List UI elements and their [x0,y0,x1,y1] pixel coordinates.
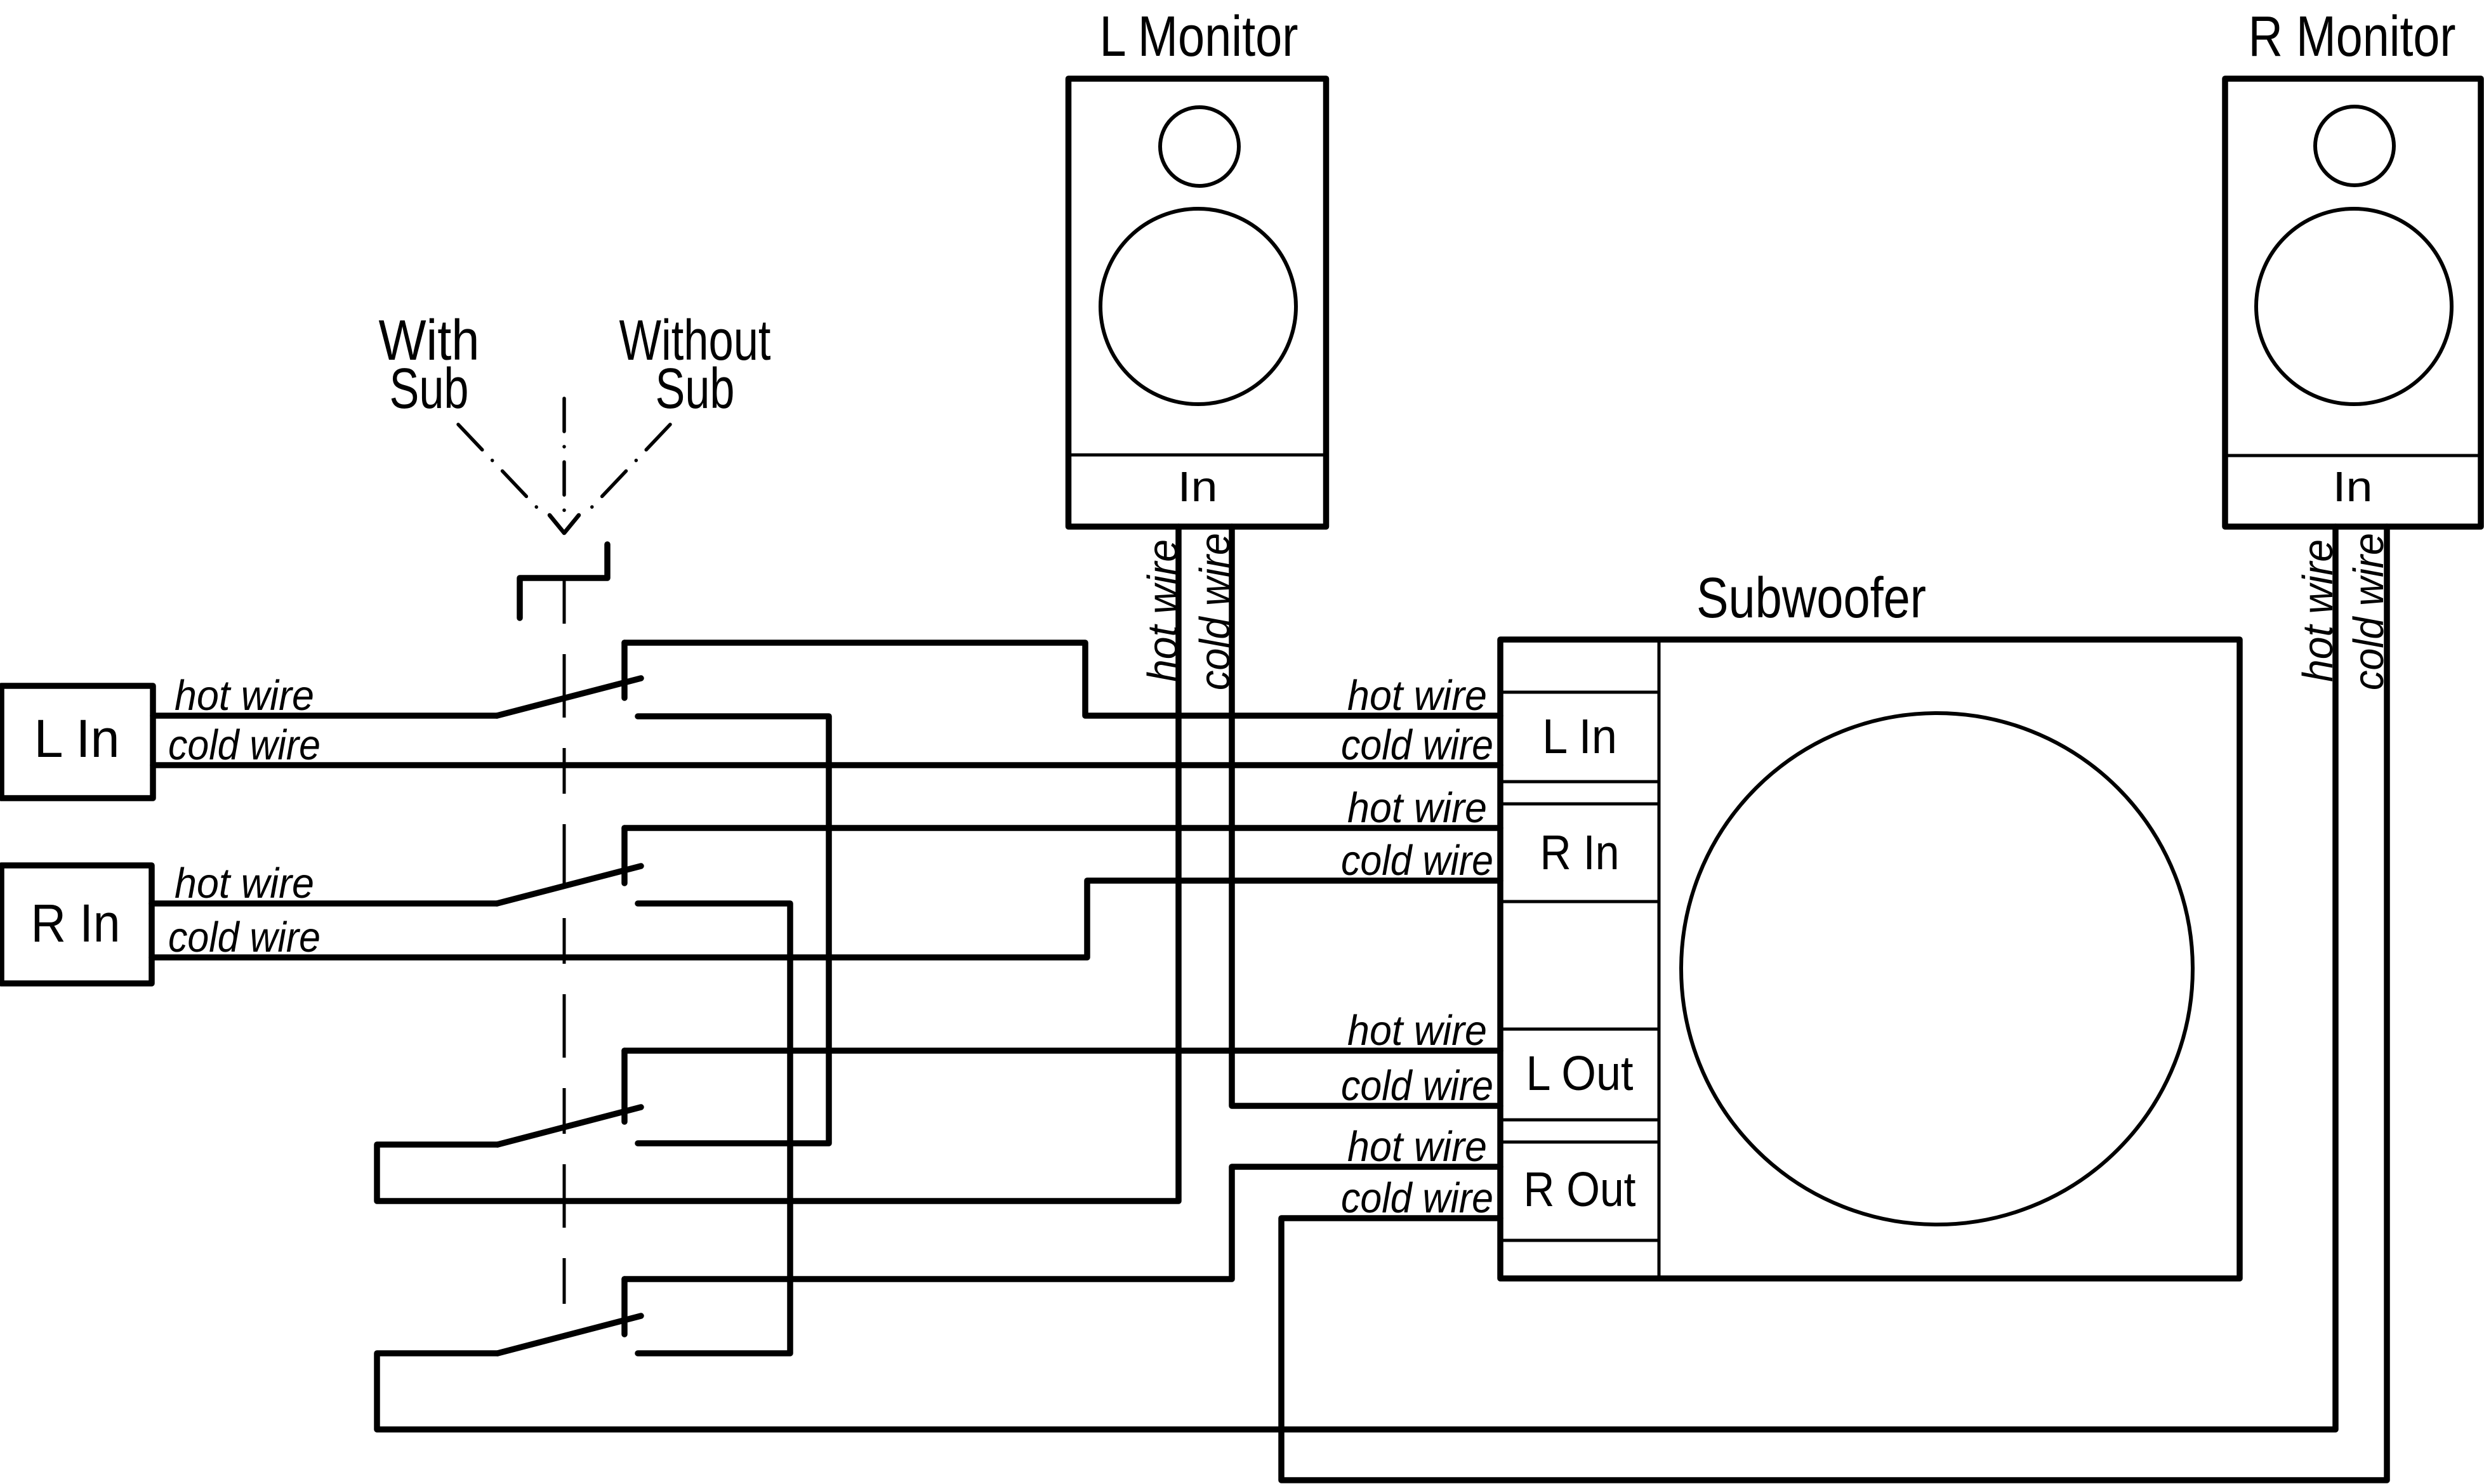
switch S3 With-Sub contact post [621,1051,628,1122]
wire L In hot to switch S1 pivot [153,712,497,719]
svg-text:hot wire: hot wire [1139,539,1187,682]
svg-text:hot wire: hot wire [175,672,314,719]
svg-text:cold wire: cold wire [1341,721,1493,769]
svg-text:cold wire: cold wire [168,721,320,769]
Subwoofer driver cone circle [1681,713,2193,1225]
svg-text:L Out: L Out [1526,1046,1634,1101]
switch S1 With-Sub contact post [621,643,628,698]
Subwoofer terminal cell line (bottom of R In cell) [1500,900,1659,903]
svg-text:In: In [1178,463,1218,511]
svg-text:hot wire: hot wire [175,860,314,907]
switch S2 With-Sub contact post [621,828,628,883]
svg-text:cold wire: cold wire [1341,1062,1493,1110]
svg-text:cold wire: cold wire [1191,533,1239,690]
Subwoofer terminal cell line (top of R Out cell) [1500,1141,1659,1144]
switch S4 blade [498,1316,641,1353]
svg-text:L In: L In [1542,709,1617,764]
svg-text:Sub: Sub [390,357,469,421]
arrow center dashed-dot line [562,398,566,511]
svg-text:hot wire: hot wire [2294,539,2342,682]
R Monitor cabinet box [2225,79,2481,527]
arrowhead pointing to switch lever [550,515,579,533]
arrow from Without Sub label (dash-dot) [590,424,670,509]
R Monitor woofer circle [2256,209,2452,404]
svg-text:In: In [2333,463,2373,511]
svg-text:hot wire: hot wire [1347,1123,1487,1171]
wire R Monitor cold to Subwoofer R Out cold [1281,527,2387,1480]
svg-text:hot wire: hot wire [1347,1007,1487,1054]
Subwoofer terminal cell line (bottom of R Out cell) [1500,1239,1659,1242]
wire L Monitor cold to Subwoofer L Out cold [1232,527,1500,1106]
svg-text:hot wire: hot wire [1347,784,1487,832]
wire L Monitor hot to switch S3 pivot [377,527,1179,1201]
wire R Monitor hot to switch S4 pivot [377,527,2335,1429]
svg-text:cold wire: cold wire [1341,837,1493,884]
switch S1 blade [497,678,641,716]
svg-text:R In: R In [1540,825,1620,880]
Subwoofer terminal cell line (bottom of L In cell) [1500,780,1659,784]
R Monitor In-panel divider line [2228,454,2478,457]
switch S4 With-Sub contact post [621,1279,628,1334]
Subwoofer terminal cell line (bottom of L Out cell) [1500,1119,1659,1122]
wire R In cold to Subwoofer R In cold [152,881,1500,957]
svg-text:cold wire: cold wire [1341,1174,1493,1222]
wire S2 Without-Sub contact to S4 Without-Sub contact [638,903,790,1353]
svg-text:R Monitor: R Monitor [2249,5,2456,69]
L In source box [1,686,153,798]
wire S1 With-Sub contact to Subwoofer L In hot [624,643,1500,716]
wire S4 With-Sub contact to Subwoofer R Out hot [624,1167,1500,1279]
switch S2 blade [497,866,641,903]
Subwoofer terminal cell line (top of L In cell) [1500,691,1659,694]
svg-text:R Out: R Out [1524,1162,1636,1217]
Subwoofer terminal cell line (top of L Out cell) [1500,1028,1659,1031]
L Monitor tweeter circle [1160,107,1239,186]
L Monitor woofer circle [1100,209,1296,404]
wire L In cold to Subwoofer L In cold [153,762,1500,768]
R In source box [1,865,152,983]
switch position dashed line [563,578,566,1332]
wire S3 With-Sub contact to Subwoofer L Out hot [624,1047,1500,1054]
Subwoofer terminal cell line (top of R In cell) [1500,803,1659,806]
R Monitor tweeter circle [2315,107,2394,185]
L Monitor cabinet box [1069,79,1326,527]
Subwoofer box [1500,640,2240,1278]
wire S2 With-Sub contact to Subwoofer R In hot [624,825,1500,831]
svg-text:L In: L In [34,709,120,768]
Subwoofer terminal strip divider [1658,640,1661,1278]
L Monitor In-panel divider line [1071,454,1323,457]
svg-text:hot wire: hot wire [1347,672,1487,719]
svg-text:Subwoofer: Subwoofer [1696,567,1926,630]
svg-text:Sub: Sub [656,357,735,421]
svg-text:cold wire: cold wire [2345,533,2393,690]
wire R In hot to switch S2 pivot [152,900,497,907]
switch lever legend symbol [520,544,607,618]
svg-text:R In: R In [31,893,121,953]
arrow from With Sub label (dash-dot) [458,424,538,509]
switch S3 blade [498,1107,641,1145]
svg-text:cold wire: cold wire [168,914,320,961]
svg-text:L Monitor: L Monitor [1100,5,1298,69]
wire S1 Without-Sub contact to S4... to S3 Without-Sub contact [638,716,829,1143]
